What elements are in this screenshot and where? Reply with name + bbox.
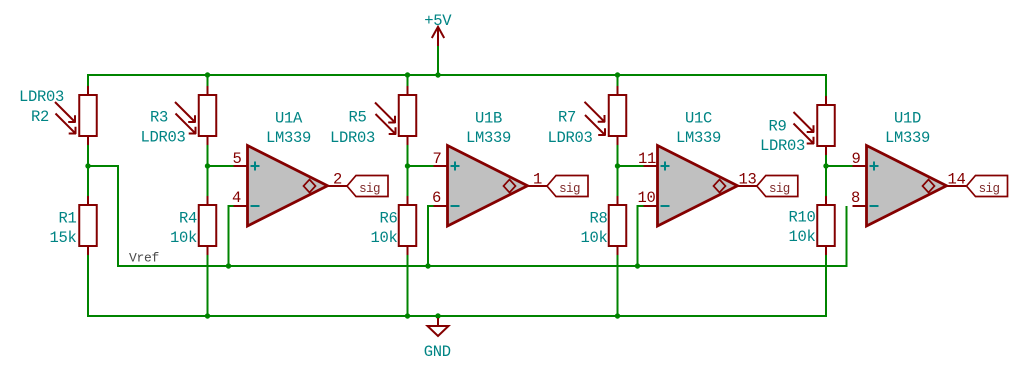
svg-text:R7: R7 [558,109,576,127]
svg-text:R5: R5 [348,109,366,127]
op-amp U1D (LM339) [853,146,967,227]
svg-text:LDR03: LDR03 [140,129,185,147]
svg-text:R10: R10 [788,209,815,227]
svg-text:5: 5 [232,150,241,168]
svg-text:10k: 10k [788,228,815,246]
wire: R2/R1 column middle (LDR to divider node) [87,143,89,166]
wire: R5/R6 column top (bus to LDR) [407,75,409,88]
svg-text:U1D: U1D [894,110,921,128]
junction: R5-R6 divider node [405,163,410,168]
resistor R10 [817,196,835,255]
wire: R9/R10 column node to lower resistor [825,166,827,198]
svg-text:R8: R8 [589,210,607,228]
svg-text:8: 8 [851,189,860,207]
junction: top bus / R5 [405,72,410,77]
svg-text:sig: sig [559,182,580,196]
svg-text:4: 4 [232,189,241,207]
svg-text:2: 2 [333,171,342,189]
wire: R3/R4 column middle (LDR to divider node) [207,143,209,166]
wire: R5/R6 column node to lower resistor [407,166,409,198]
svg-text:LDR03: LDR03 [19,88,64,106]
R2 LDR arrows [55,102,76,123]
svg-text:U1C: U1C [685,110,712,128]
wire: R3/R4 column node to lower resistor [207,166,209,198]
R3 LDR arrows [175,102,196,123]
wire: R5/R6 column middle (LDR to divider node) [407,143,409,166]
op-amp U1B (LM339) [434,146,548,227]
svg-text:sig: sig [359,182,380,196]
op-amp U1A (LM339) [234,146,348,227]
wire: R2/R1 column top (bus to LDR) [87,75,89,88]
global label sig (output 1) [347,176,388,197]
svg-text:15k: 15k [49,229,76,247]
svg-text:LDR03: LDR03 [330,129,375,147]
junction: R9-R10 divider node [823,163,828,168]
svg-text:10k: 10k [370,229,397,247]
resistor R2 [79,86,97,145]
svg-text:R9: R9 [768,118,786,136]
wire: R9/R10 column middle (LDR to divider node) [825,153,827,166]
wire: R7/R8 column middle (LDR to divider node) [617,143,619,166]
junction: top bus / +5V [435,72,440,77]
svg-text:10k: 10k [170,229,197,247]
junction: Vref / U1B - input [425,263,430,268]
wire: R9/R10 column top (bus to LDR) [825,75,827,98]
wire: Vref rail to U1C - input [638,206,644,266]
svg-text:U1A: U1A [275,110,303,128]
wire: R2/R1 column lower resistor to GND bus [87,253,89,316]
resistor R7 [609,86,627,145]
op-amp U1C (LM339) [644,146,758,227]
global label sig (output 3) [757,176,798,197]
node Vref: horizontal rail [88,166,847,266]
resistor R6 [399,196,417,255]
wire: R5/R6 column lower resistor to GND bus [407,253,409,316]
power symbol +5V [432,27,444,46]
svg-text:R6: R6 [379,210,397,228]
wire: +5V symbol stem [437,44,439,75]
wire: R7/R8 column top (bus to LDR) [617,75,619,88]
wire: GND symbol stem [437,316,439,321]
svg-text:Vref: Vref [129,251,159,266]
wire: R9/R10 column lower resistor to GND bus [825,253,827,316]
ground symbol GND [428,318,449,336]
svg-text:LM339: LM339 [466,129,511,147]
wire: divider node to U1C + input [618,165,645,167]
junction: Vref / U1C - input [635,263,640,268]
svg-text:11: 11 [638,150,656,168]
junction: bottom bus / GND [435,313,440,318]
svg-text:9: 9 [851,150,860,168]
svg-text:R3: R3 [150,109,168,127]
resistor R9 [817,96,835,155]
svg-text:LM339: LM339 [676,129,721,147]
wire: +5V top bus [88,75,826,98]
svg-text:7: 7 [432,150,441,168]
wire: divider node to U1A + input [208,165,235,167]
resistor R5 [399,86,417,145]
wire: Vref rail to U1B - input [428,206,434,266]
svg-text:14: 14 [947,171,965,189]
junction: bottom bus / R6 [405,313,410,318]
svg-text:LM339: LM339 [885,129,930,147]
junction: bottom bus / R4 [205,313,210,318]
svg-text:+5V: +5V [424,12,452,30]
junction: top bus / R3 [205,72,210,77]
svg-text:R1: R1 [58,210,76,228]
junction: R2-R1 divider node [85,163,90,168]
junction: top bus / R7 [615,72,620,77]
resistor R4 [199,196,217,255]
R5 LDR arrows [375,103,396,124]
svg-text:sig: sig [769,182,790,196]
global label sig (output 2) [547,176,588,197]
svg-text:sig: sig [979,182,1000,196]
svg-text:13: 13 [738,171,756,189]
junction: Vref / U1A - input [226,263,231,268]
svg-text:R2: R2 [31,108,49,126]
svg-text:LDR03: LDR03 [760,137,805,155]
resistor R8 [609,196,627,255]
svg-text:6: 6 [432,189,441,207]
resistor R3 [199,86,217,145]
svg-text:LDR03: LDR03 [547,129,592,147]
wire: Vref rail to U1A - input [229,206,235,266]
resistor R1 [79,196,97,255]
wire: R3/R4 column lower resistor to GND bus [207,253,209,316]
wire: R2/R1 column node to lower resistor [87,166,89,198]
wire: divider node to U1B + input [408,165,435,167]
R7 LDR arrows [585,102,606,123]
svg-text:10k: 10k [580,229,607,247]
svg-text:R4: R4 [179,210,197,228]
wire: R7/R8 column node to lower resistor [617,166,619,198]
svg-text:10: 10 [637,189,655,207]
junction: R3-R4 divider node [205,163,210,168]
junction: R7-R8 divider node [615,163,620,168]
wire: GND bottom bus [88,252,826,316]
svg-text:GND: GND [424,343,451,361]
global label sig (output 4) [967,176,1008,197]
wire: R7/R8 column lower resistor to GND bus [617,253,619,316]
svg-text:1: 1 [533,171,542,189]
junction: bottom bus / R8 [615,313,620,318]
svg-text:LM339: LM339 [266,129,311,147]
wire: divider node to U1D + input [826,165,854,167]
svg-text:U1B: U1B [475,110,502,128]
wire: R3/R4 column top (bus to LDR) [207,75,209,88]
R9 LDR arrows [794,112,815,133]
